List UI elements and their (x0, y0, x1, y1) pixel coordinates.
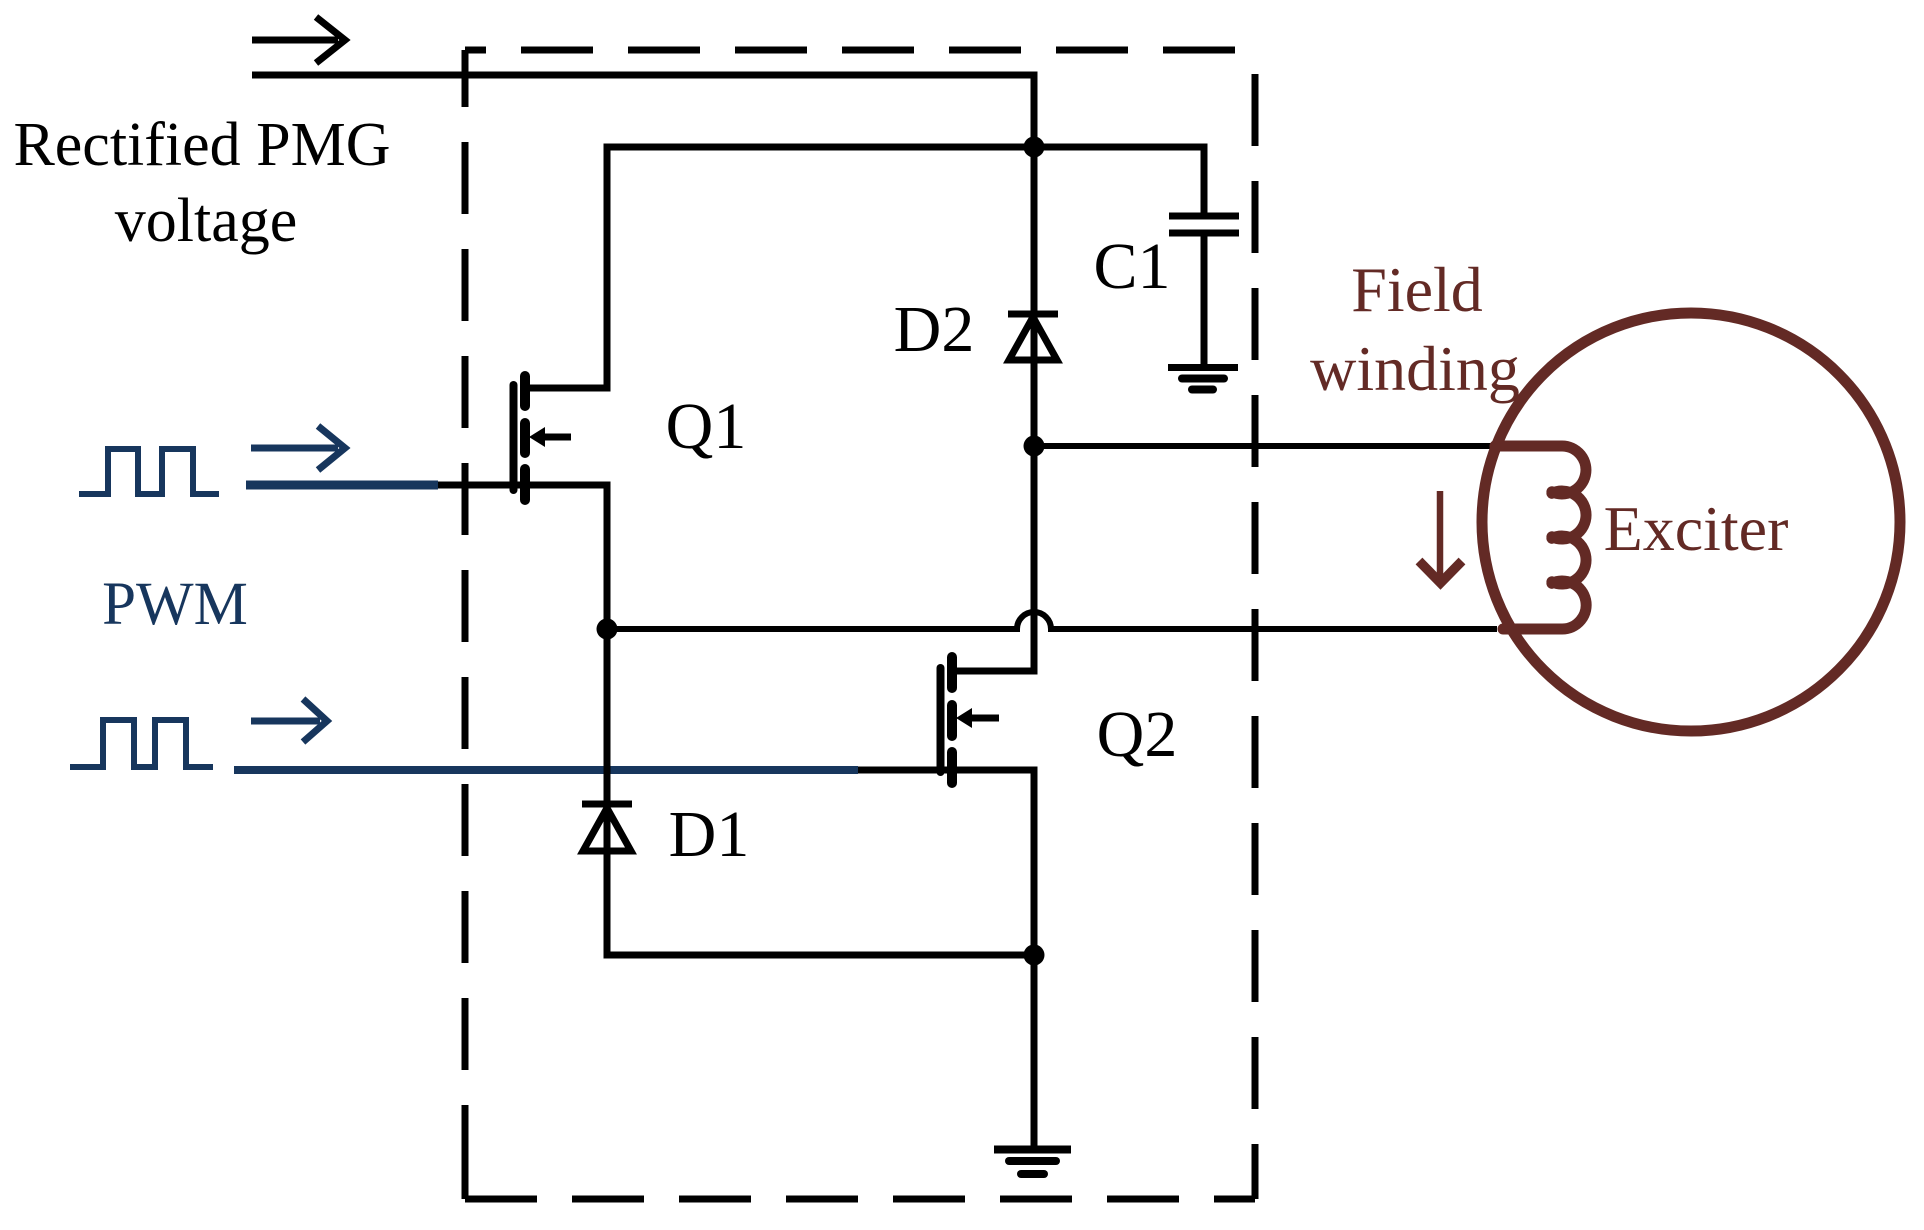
PWM arrow 2 (251, 699, 327, 742)
svg-text:Rectified PMG: Rectified PMG (13, 111, 390, 179)
wire: Q2 gate/source line to bottom rail (858, 770, 1034, 955)
current direction arrow (1419, 491, 1462, 584)
exciter field winding coil (1495, 446, 1586, 629)
wire: node A to capacitor C1 (1034, 147, 1204, 216)
MOSFET Q2 (941, 657, 1000, 783)
PWM square wave 2 (70, 720, 213, 767)
svg-text:Field: Field (1351, 254, 1483, 325)
node A (top rail junction) (1024, 137, 1045, 158)
svg-text:PWM: PWM (102, 571, 248, 638)
svg-text:voltage: voltage (115, 187, 298, 255)
wire: top rail from input to node A (252, 75, 1034, 147)
PWM arrow 1 (251, 426, 345, 470)
node B (phase node) (1024, 436, 1045, 457)
wire: node B to field winding (top lead) (1034, 443, 1497, 449)
svg-text:Q2: Q2 (1097, 698, 1178, 771)
wire: field return from node C with hop over vertical line (607, 612, 1497, 629)
PWM input line 1 (blue) (246, 481, 438, 490)
label: Field winding (1310, 254, 1520, 404)
PWM square wave 1 (79, 449, 219, 494)
wire: node A down through D2 to node B (1031, 147, 1038, 446)
dashed converter box (465, 50, 1255, 1199)
diode D2 (1008, 314, 1058, 360)
svg-text:Q1: Q1 (666, 390, 747, 463)
exciter circle (1482, 313, 1900, 731)
svg-text:D2: D2 (894, 293, 975, 366)
PWM input line 2 (blue) (234, 766, 858, 774)
svg-text:C1: C1 (1093, 230, 1170, 303)
ground for C1 (1168, 368, 1238, 390)
svg-text:Exciter: Exciter (1604, 493, 1789, 564)
node C (Q1 source / D1 / field return junction) (597, 619, 618, 640)
wire: Q1 gate/source line (black part) and down to node C (436, 485, 607, 629)
ground (main) (994, 1150, 1071, 1175)
wire: node D to ground (1031, 955, 1038, 1147)
svg-text:D1: D1 (669, 798, 750, 871)
label: Rectified PMG voltage (13, 111, 390, 255)
wire: node B down through hop to Q2 drain (952, 446, 1034, 671)
node D (bottom rail junction) (1024, 945, 1045, 966)
diode D1 (582, 804, 632, 851)
svg-text:winding: winding (1310, 333, 1520, 404)
input arrow (rectified PMG voltage) (252, 17, 345, 63)
wire: Q1 drain lead up and across to node A (525, 147, 1034, 388)
MOSFET Q1 (514, 376, 572, 500)
wire: node C down through D1 to bottom rail (607, 629, 1034, 955)
capacitor C1 (1169, 216, 1239, 367)
